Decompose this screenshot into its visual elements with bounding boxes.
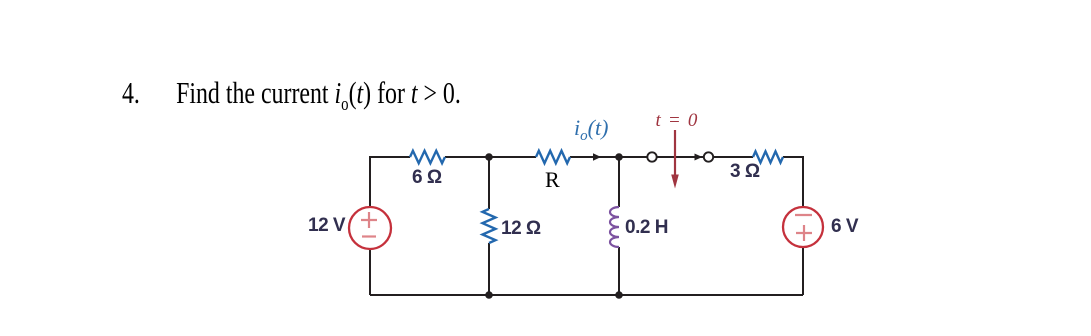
svg-text:t = 0: t = 0 <box>656 110 699 131</box>
svg-text:6 V: 6 V <box>831 216 859 237</box>
svg-text:R: R <box>545 167 560 192</box>
svg-text:12 V: 12 V <box>308 215 346 236</box>
svg-text:12 Ω: 12 Ω <box>501 218 541 239</box>
svg-text:3 Ω: 3 Ω <box>730 161 760 182</box>
svg-text:6 Ω: 6 Ω <box>412 167 442 188</box>
svg-text:io(t): io(t) <box>574 115 608 144</box>
svg-text:0.2 H: 0.2 H <box>625 217 668 238</box>
